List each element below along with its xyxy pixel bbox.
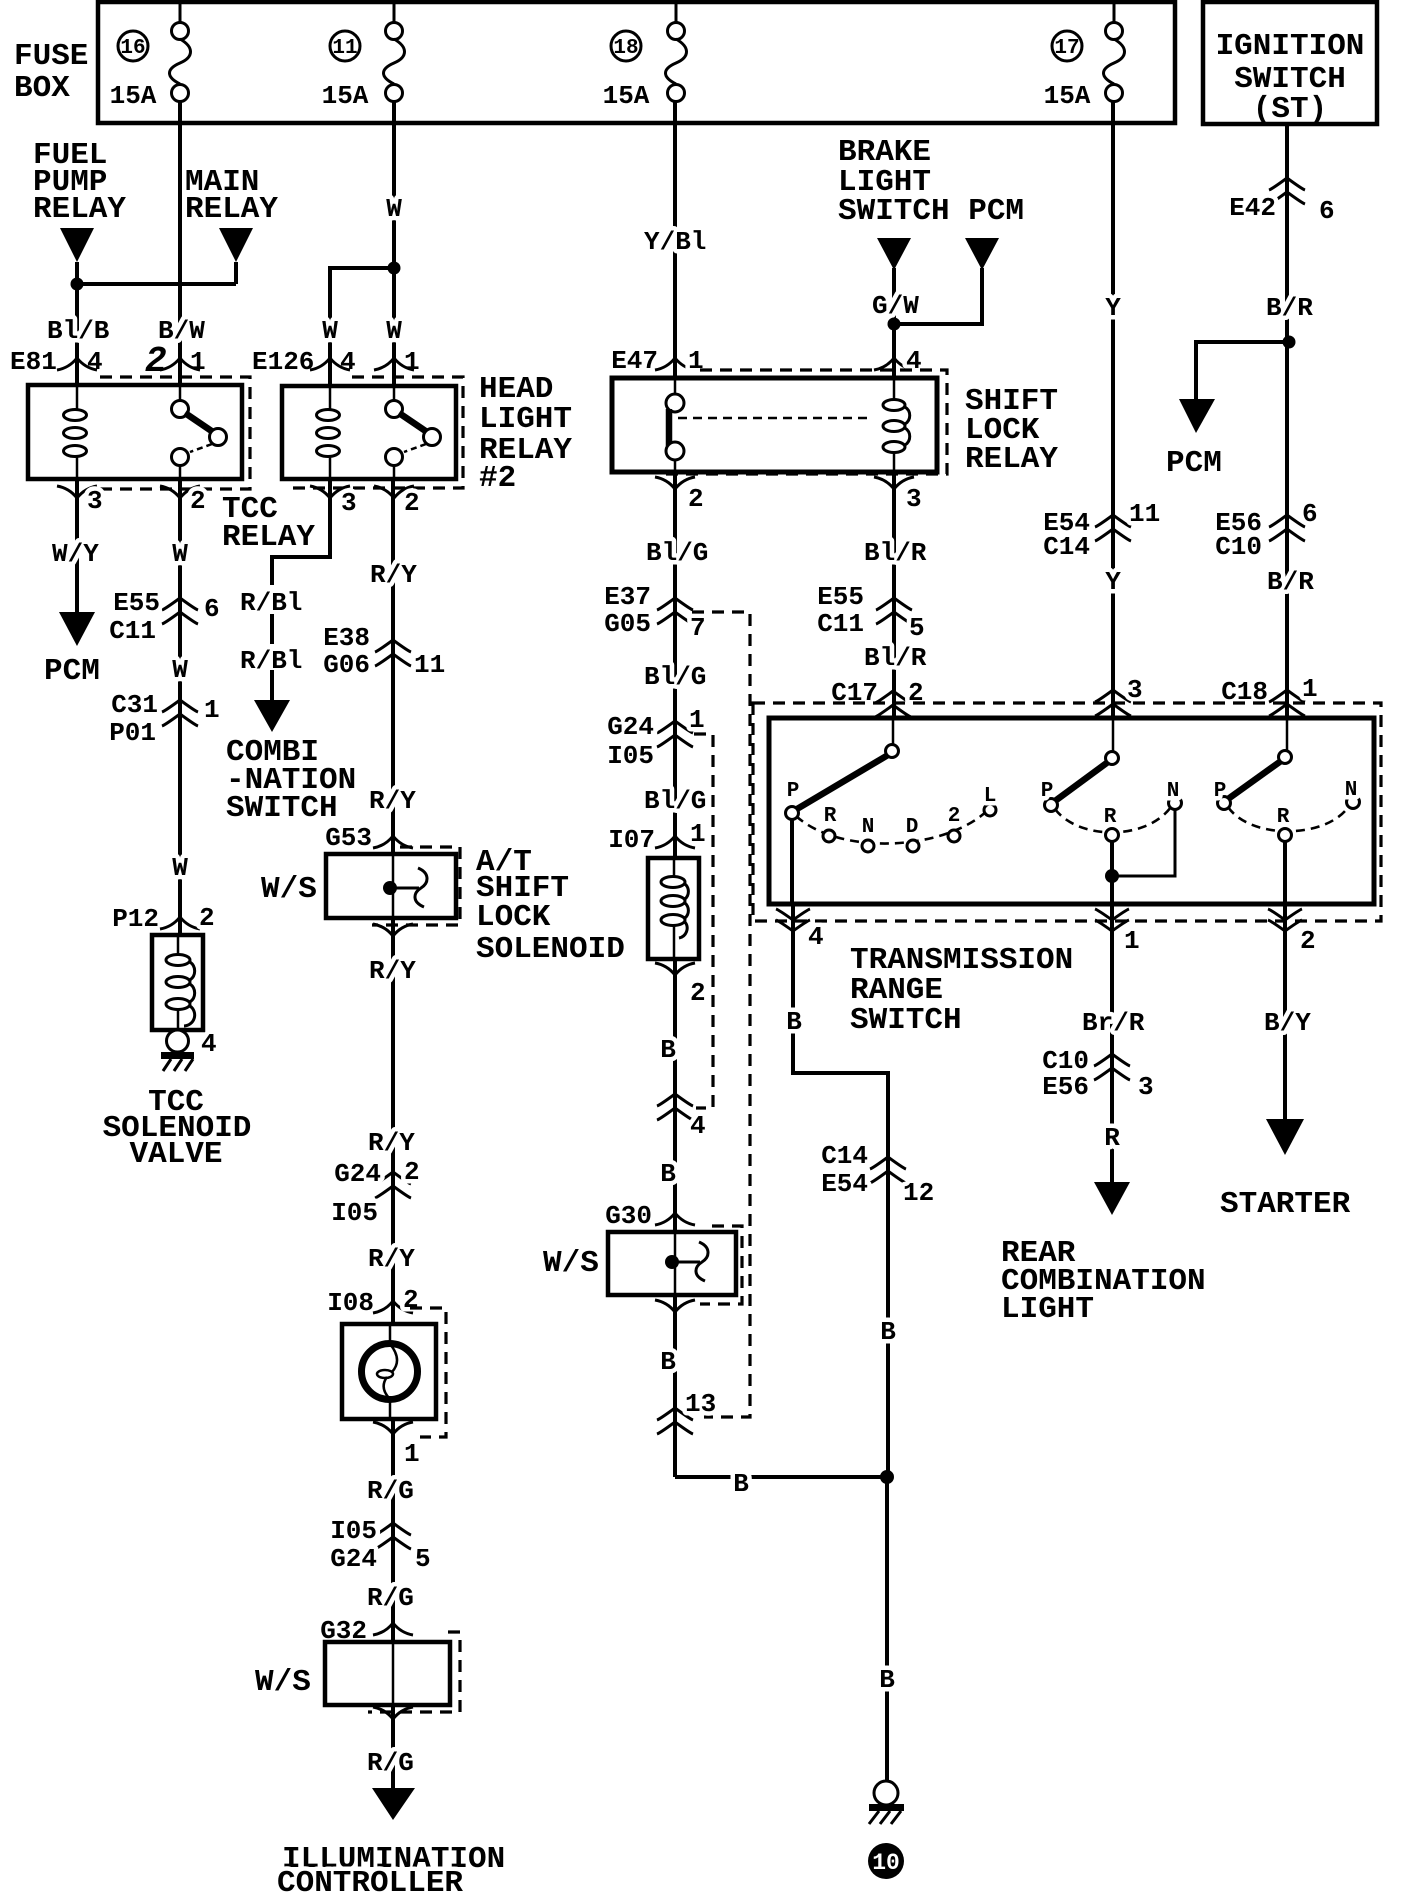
svg-text:B: B (660, 1347, 676, 1377)
G30 bottom pin (655, 1300, 695, 1312)
svg-text:RELAY: RELAY (33, 192, 126, 227)
TRS switch group 1 (786, 718, 997, 904)
svg-text:7: 7 (690, 613, 706, 643)
svg-text:VALVE: VALVE (129, 1137, 222, 1172)
svg-text:B/R: B/R (1267, 567, 1314, 597)
svg-text:D: D (906, 816, 919, 839)
svg-text:R: R (824, 805, 837, 828)
A/T shift lock solenoid G53 box (326, 847, 460, 925)
svg-text:BOX: BOX (14, 71, 70, 106)
svg-text:G05: G05 (604, 609, 651, 639)
wire B down (673, 959, 677, 1232)
G30 box (608, 1226, 742, 1304)
wire pcm branch (894, 268, 982, 324)
svg-text:N: N (1345, 779, 1358, 802)
svg-text:C11: C11 (109, 616, 156, 646)
svg-text:B: B (879, 1665, 895, 1695)
svg-text:6: 6 (204, 594, 220, 624)
I08 bottom pin (373, 1422, 420, 1469)
svg-text:Bl/R: Bl/R (864, 643, 927, 673)
wire branch to E126 pin4 (330, 268, 394, 386)
svg-text:1: 1 (404, 347, 420, 377)
wire E126 pin3 elbow to R/Bl (272, 479, 330, 585)
svg-text:G30: G30 (605, 1201, 652, 1231)
G53 bottom pin (373, 924, 413, 936)
svg-text:15A: 15A (1044, 81, 1091, 111)
svg-text:W/S: W/S (255, 1665, 311, 1700)
svg-text:Y: Y (1105, 567, 1121, 597)
A/T shift illumination light I08 bulb (342, 1308, 446, 1437)
rear combination light label (1001, 1236, 1206, 1327)
svg-text:2: 2 (690, 978, 706, 1008)
wire R/G to arrow (391, 1705, 395, 1790)
connector G53 (325, 823, 413, 853)
junction dot G/W (888, 318, 901, 331)
svg-text:R/G: R/G (367, 1583, 414, 1613)
arrow to combination switch (270, 670, 274, 702)
wire R/Bl dash segment (270, 614, 274, 644)
transmission range switch box (769, 718, 1374, 904)
svg-text:E55: E55 (817, 582, 864, 612)
svg-text:R/Y: R/Y (370, 560, 417, 590)
svg-text:PCM: PCM (1166, 446, 1222, 481)
wire fuse16 to E81 pin1 (B/W) (178, 102, 182, 385)
svg-text:B: B (786, 1007, 802, 1037)
svg-text:13: 13 (685, 1389, 716, 1419)
svg-text:4: 4 (808, 922, 824, 952)
wire B horizontal to junction (675, 1475, 887, 1479)
junction dot B (880, 1470, 894, 1484)
svg-text:N: N (1167, 780, 1180, 803)
junction dot W (388, 262, 401, 275)
connector E54/C14 11 (1043, 499, 1160, 562)
svg-text:11: 11 (332, 37, 357, 60)
svg-text:12: 12 (903, 1178, 934, 1208)
svg-text:FUSE: FUSE (14, 39, 88, 74)
svg-text:C11: C11 (817, 609, 864, 639)
circled 10 (868, 1843, 904, 1879)
svg-text:B: B (660, 1035, 676, 1065)
svg-text:RELAY: RELAY (965, 442, 1058, 477)
transmission range switch dashed box (753, 703, 1381, 921)
svg-text:R/G: R/G (367, 1476, 414, 1506)
svg-text:4: 4 (201, 1029, 217, 1059)
wire main relay drop (234, 262, 238, 284)
svg-text:B: B (660, 1159, 676, 1189)
svg-text:C10: C10 (1215, 532, 1262, 562)
svg-text:15A: 15A (110, 81, 157, 111)
connector G30 (605, 1201, 695, 1231)
svg-text:3: 3 (906, 484, 922, 514)
svg-text:E54: E54 (821, 1169, 868, 1199)
svg-text:15A: 15A (322, 81, 369, 111)
connector 4 (657, 1094, 706, 1141)
svg-text:W/Y: W/Y (52, 539, 99, 569)
TRS pin 2 (1268, 909, 1316, 956)
connector G24/I05 (607, 705, 704, 771)
svg-text:P12: P12 (112, 904, 159, 934)
svg-text:Br/R: Br/R (1082, 1008, 1145, 1038)
svg-text:R: R (1277, 806, 1290, 829)
arrow to starter (1266, 1119, 1304, 1155)
brake light switch arrow (877, 238, 911, 270)
svg-text:W: W (172, 853, 188, 883)
svg-text:R/Y: R/Y (368, 1128, 415, 1158)
svg-text:G24: G24 (607, 712, 654, 742)
brake light switch label (838, 135, 1024, 229)
connector C14/E54 12 (821, 1141, 934, 1208)
wire ignition B/R down (1285, 124, 1289, 718)
TRS switch group 2 (1041, 718, 1182, 904)
dashed bracket E37 to 13 (692, 612, 750, 1417)
svg-text:C14: C14 (1043, 532, 1090, 562)
connector 3 (1095, 675, 1143, 716)
connector E42 6 (1229, 178, 1334, 226)
connector E38/G06 (323, 623, 445, 680)
ground terminal circle (874, 1781, 898, 1805)
svg-text:RELAY: RELAY (185, 192, 278, 227)
ground (161, 1052, 194, 1071)
svg-text:1: 1 (204, 695, 220, 725)
svg-text:C14: C14 (821, 1141, 868, 1171)
svg-text:3: 3 (1127, 675, 1143, 705)
pcm arrow top (965, 238, 999, 270)
wire R/Y down (391, 918, 395, 1324)
connector C31/P01 (109, 690, 219, 748)
svg-text:I05: I05 (330, 1516, 377, 1546)
shift lock relay label (965, 384, 1058, 477)
wire E47 pin3 Bl/R to C17 (892, 472, 896, 718)
A/T shift lock solenoid label (476, 845, 625, 967)
svg-text:1: 1 (1124, 926, 1140, 956)
svg-text:STARTER: STARTER (1220, 1187, 1351, 1222)
svg-text:C31: C31 (111, 690, 158, 720)
shift lock relay E47 (611, 346, 947, 514)
svg-text:LIGHT: LIGHT (479, 402, 572, 437)
wire horizontal relay tie (77, 282, 236, 286)
ground terminal circle pin4 (167, 1030, 189, 1052)
svg-text:W: W (172, 539, 188, 569)
svg-text:1: 1 (190, 347, 206, 377)
svg-text:PCM: PCM (44, 654, 100, 689)
svg-text:E38: E38 (323, 623, 370, 653)
svg-text:3: 3 (341, 488, 357, 518)
connector E55/C11 (109, 588, 219, 646)
connector P12 pin2 (112, 903, 214, 934)
svg-text:4: 4 (690, 1111, 706, 1141)
svg-text:2: 2 (404, 488, 420, 518)
connector E55/C11 5 (817, 582, 924, 643)
svg-text:R/G: R/G (367, 1748, 414, 1778)
svg-text:3: 3 (1138, 1072, 1154, 1102)
head light relay #2 label (479, 372, 572, 496)
svg-text:R/Y: R/Y (369, 786, 416, 816)
svg-text:6: 6 (1319, 196, 1335, 226)
wire fuse17 Y to TRS (1111, 102, 1115, 718)
svg-text:W: W (386, 316, 402, 346)
wire B to ground (885, 1477, 889, 1782)
svg-text:E42: E42 (1229, 193, 1276, 223)
connector E56/C10 6 (1215, 499, 1317, 562)
svg-text:B/Y: B/Y (1264, 1008, 1311, 1038)
wire E126 pin2 R/Y chain (391, 479, 395, 854)
illumination controller label (277, 1842, 505, 1898)
G32 box (325, 1632, 460, 1712)
svg-text:Bl/R: Bl/R (864, 538, 927, 568)
svg-text:5: 5 (909, 613, 925, 643)
svg-text:4: 4 (340, 347, 356, 377)
svg-text:16: 16 (120, 37, 145, 60)
svg-text:R: R (1104, 1123, 1120, 1153)
svg-text:RELAY: RELAY (222, 520, 315, 555)
connector E37/G05 (604, 582, 705, 643)
arrow to illumination controller (372, 1788, 415, 1820)
svg-text:G06: G06 (323, 650, 370, 680)
I07 bottom pin (655, 963, 706, 1008)
svg-text:Bl/G: Bl/G (646, 538, 708, 568)
svg-text:I05: I05 (607, 741, 654, 771)
svg-text:6: 6 (1302, 499, 1318, 529)
svg-text:2: 2 (190, 486, 206, 516)
svg-text:N: N (862, 816, 875, 839)
main relay arrow (185, 165, 278, 262)
svg-text:SWITCH: SWITCH (850, 1003, 962, 1038)
svg-text:2: 2 (404, 1157, 420, 1187)
svg-text:W/S: W/S (543, 1246, 599, 1281)
svg-text:SWITCH PCM: SWITCH PCM (838, 194, 1024, 229)
svg-text:SOLENOID: SOLENOID (476, 932, 625, 967)
connector C17 (831, 678, 923, 717)
wire TRS pin1 Br/R (1110, 904, 1114, 1184)
ignition switch box (ST) (1203, 2, 1377, 127)
wire fuel pump relay to E81 pin4 (Bl/B) (75, 262, 79, 385)
svg-text:R/Y: R/Y (368, 1244, 415, 1274)
wire fuse18 Y/Bl to E47 pin1 (673, 102, 677, 378)
svg-text:2: 2 (948, 805, 961, 828)
svg-text:G24: G24 (334, 1159, 381, 1189)
connector I07 (608, 819, 705, 855)
svg-text:W: W (172, 655, 188, 685)
TCC solenoid valve coil (152, 935, 203, 1030)
svg-text:2: 2 (199, 903, 215, 933)
svg-text:LOCK: LOCK (476, 900, 551, 935)
dashed bracket G24 to 4 (694, 734, 713, 1108)
fuel pump relay arrow (33, 138, 126, 262)
svg-text:5: 5 (415, 1544, 431, 1574)
wire fuse11 down (W) (392, 102, 396, 386)
svg-text:1: 1 (690, 819, 706, 849)
relay E81 (10, 341, 250, 516)
svg-text:G24: G24 (330, 1544, 377, 1574)
G32 bottom pin (373, 1707, 413, 1719)
svg-text:Y/Bl: Y/Bl (644, 227, 706, 257)
svg-text:R: R (1104, 806, 1117, 829)
svg-text:G53: G53 (325, 823, 372, 853)
svg-text:P01: P01 (109, 718, 156, 748)
svg-text:I07: I07 (608, 825, 655, 855)
svg-text:I05: I05 (331, 1198, 378, 1228)
fuse 17 (1044, 3, 1125, 111)
arrow to PCM (59, 612, 95, 646)
ground symbol (869, 1804, 904, 1824)
connector C18 (1221, 674, 1317, 716)
svg-text:IGNITION: IGNITION (1216, 29, 1365, 64)
svg-text:15A: 15A (603, 81, 650, 111)
junction dot (71, 278, 84, 291)
svg-text:10: 10 (872, 1850, 900, 1876)
TRS switch group 3 (1214, 718, 1360, 904)
combination switch label (226, 735, 356, 826)
svg-text:W: W (322, 316, 338, 346)
svg-text:Bl/B: Bl/B (47, 316, 110, 346)
fuse box (98, 2, 1175, 123)
TRS pin 1 (1095, 909, 1140, 956)
TRS pin 4 (776, 909, 824, 952)
svg-text:I08: I08 (327, 1288, 374, 1318)
svg-text:E55: E55 (113, 588, 160, 618)
svg-text:LIGHT: LIGHT (1001, 1292, 1094, 1327)
svg-text:B: B (733, 1469, 749, 1499)
wire R/G (391, 1419, 395, 1642)
svg-text:Bl/G: Bl/G (644, 662, 706, 692)
svg-text:P: P (1214, 780, 1227, 803)
arrow to rear combination light (1094, 1182, 1130, 1215)
svg-text:E37: E37 (604, 582, 651, 612)
svg-text:CONTROLLER: CONTROLLER (277, 1866, 463, 1898)
svg-text:3: 3 (87, 486, 103, 516)
svg-text:2: 2 (688, 484, 704, 514)
svg-text:B: B (880, 1317, 896, 1347)
svg-text:Y: Y (1105, 293, 1121, 323)
transmission range switch label (850, 943, 1073, 1038)
wire TRS pin4 B elbow (793, 904, 888, 1477)
fuse 18 (603, 3, 687, 111)
svg-text:Bl/G: Bl/G (644, 786, 706, 816)
wire TRS pin2 B/Y (1283, 904, 1287, 1121)
connector G32 (320, 1616, 413, 1646)
fuse 16 (110, 3, 191, 111)
I07 coil box (648, 858, 699, 959)
pcm branch right (1166, 336, 1296, 482)
svg-text:E47: E47 (611, 346, 658, 376)
wire E81 pin3 W/Y (75, 479, 79, 614)
svg-text:11: 11 (414, 650, 445, 680)
svg-text:R/Bl: R/Bl (240, 588, 302, 618)
svg-text:P: P (1041, 780, 1054, 803)
svg-text:SWITCH: SWITCH (226, 791, 338, 826)
svg-text:17: 17 (1054, 37, 1079, 60)
svg-text:#2: #2 (479, 461, 516, 496)
svg-text:R/Y: R/Y (369, 956, 416, 986)
svg-text:E56: E56 (1042, 1072, 1089, 1102)
svg-text:1: 1 (404, 1439, 420, 1469)
fuse 11 (322, 3, 405, 111)
wire E81 pin2 W down to P12 (178, 479, 182, 935)
svg-text:11: 11 (1129, 499, 1160, 529)
connector 13 (657, 1389, 716, 1434)
svg-text:1: 1 (689, 705, 705, 735)
svg-text:E126: E126 (252, 347, 314, 377)
svg-text:18: 18 (613, 37, 638, 60)
connector I08 (327, 1285, 418, 1318)
wire E47 pin2 Bl/G chain (673, 472, 677, 858)
wire G/W (892, 268, 896, 378)
connector I05/G24 (330, 1516, 430, 1574)
relay E126 head light relay #2 (252, 347, 463, 518)
connector G24/I05 (331, 1157, 419, 1228)
svg-text:W/S: W/S (261, 872, 317, 907)
svg-text:1: 1 (1302, 674, 1318, 704)
wire B down (673, 1295, 677, 1477)
svg-text:L: L (984, 785, 997, 808)
connector C10/E56 3 (1042, 1046, 1153, 1102)
TCC solenoid valve label (103, 1085, 252, 1172)
svg-text:B/R: B/R (1266, 293, 1313, 323)
svg-text:G/W: G/W (872, 291, 919, 321)
svg-text:2: 2 (1300, 926, 1316, 956)
svg-text:W: W (386, 194, 402, 224)
svg-text:P: P (787, 780, 800, 803)
svg-text:2: 2 (403, 1285, 419, 1315)
svg-text:4: 4 (87, 347, 103, 377)
svg-text:E81: E81 (10, 347, 57, 377)
